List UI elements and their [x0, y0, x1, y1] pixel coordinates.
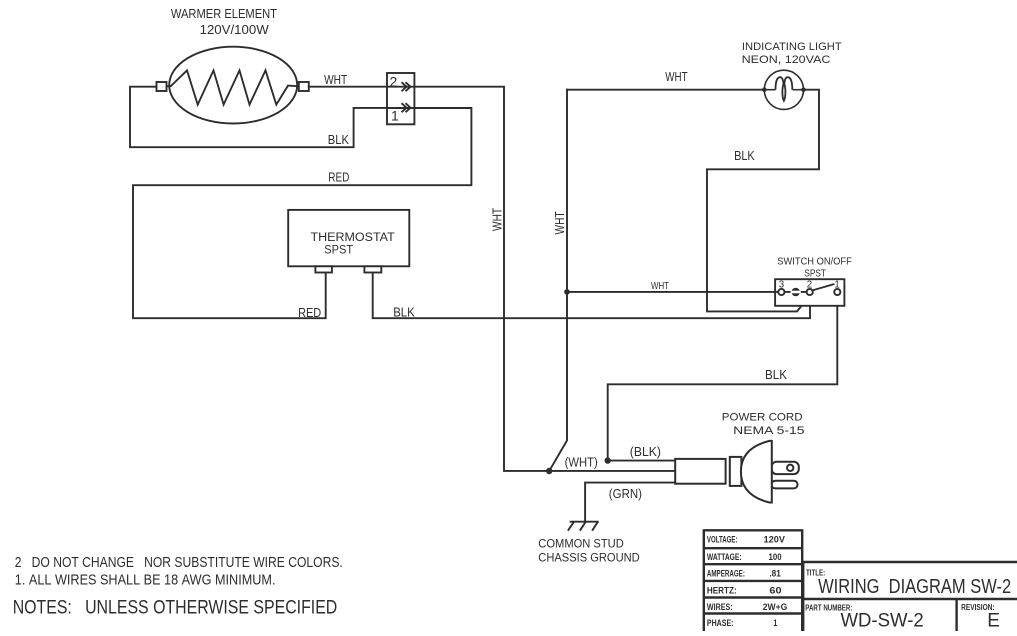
svg-text:2: 2: [390, 74, 398, 90]
svg-text:WATTAGE:: WATTAGE:: [707, 552, 742, 562]
svg-text:WHT: WHT: [552, 211, 567, 234]
svg-text:2 DO NOT CHANGE NOR SUBSTI: 2 DO NOT CHANGE NOR SUBSTITUTE WIRE COLO…: [15, 555, 343, 571]
svg-text:BLK: BLK: [734, 148, 755, 163]
svg-text:.81: .81: [769, 569, 780, 579]
svg-text:PHASE:: PHASE:: [707, 618, 734, 628]
svg-text:HERTZ:: HERTZ:: [707, 585, 737, 595]
svg-text:NEMA 5-15: NEMA 5-15: [733, 425, 804, 437]
svg-text:SPST: SPST: [324, 243, 353, 257]
svg-text:INDICATING LIGHT: INDICATING LIGHT: [742, 41, 842, 53]
svg-text:(BLK): (BLK): [630, 445, 661, 459]
svg-text:1: 1: [834, 279, 839, 290]
svg-text:RED: RED: [328, 170, 349, 185]
svg-text:BLK: BLK: [393, 304, 415, 319]
svg-text:60: 60: [769, 585, 781, 595]
svg-text:WHT: WHT: [490, 208, 505, 231]
svg-text:2W+G: 2W+G: [763, 602, 788, 612]
svg-text:3: 3: [779, 279, 784, 290]
svg-text:120V/100W: 120V/100W: [200, 22, 270, 37]
svg-text:1: 1: [773, 618, 777, 628]
svg-text:RED: RED: [298, 305, 321, 320]
svg-text:NOTES: UNLESS OTHERWISE SPEC: NOTES: UNLESS OTHERWISE SPECIFIED: [13, 597, 338, 618]
svg-text:WD-SW-2: WD-SW-2: [841, 611, 924, 631]
svg-text:SWITCH ON/OFF: SWITCH ON/OFF: [777, 257, 852, 268]
svg-text:(WHT): (WHT): [565, 456, 598, 470]
svg-text:120V: 120V: [764, 535, 785, 545]
svg-text:1. ALL WIRES SHALL BE 18 AWG M: 1. ALL WIRES SHALL BE 18 AWG MINIMUM.: [15, 573, 276, 589]
svg-text:WHT: WHT: [324, 72, 347, 87]
svg-text:WARMER ELEMENT: WARMER ELEMENT: [171, 6, 277, 21]
svg-text:WHT: WHT: [651, 281, 669, 292]
svg-text:(GRN): (GRN): [609, 487, 642, 501]
svg-text:WIRING DIAGRAM SW-2: WIRING DIAGRAM SW-2: [818, 575, 1011, 598]
svg-text:BLK: BLK: [328, 132, 349, 147]
svg-text:WIRES:: WIRES:: [707, 602, 733, 612]
svg-text:100: 100: [769, 552, 782, 562]
svg-text:CHASSIS GROUND: CHASSIS GROUND: [538, 551, 639, 565]
svg-text:WHT: WHT: [665, 69, 687, 84]
svg-text:NEON, 120VAC: NEON, 120VAC: [742, 54, 831, 66]
svg-text:COMMON STUD: COMMON STUD: [538, 536, 624, 550]
svg-text:E: E: [987, 611, 1000, 631]
svg-text:BLK: BLK: [765, 367, 787, 382]
svg-text:2: 2: [807, 279, 812, 290]
svg-text:1: 1: [391, 107, 399, 123]
svg-text:VOLTAGE:: VOLTAGE:: [707, 535, 738, 545]
svg-text:POWER CORD: POWER CORD: [722, 412, 803, 424]
svg-text:SPST: SPST: [804, 269, 826, 280]
svg-text:AMPERAGE:: AMPERAGE:: [707, 569, 745, 579]
